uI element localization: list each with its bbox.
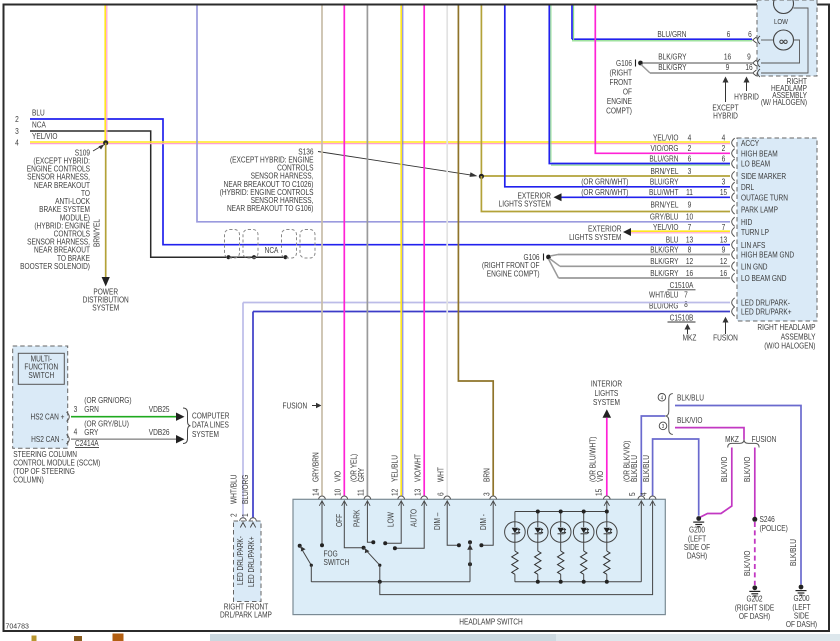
illumination LED 2 — [528, 522, 549, 543]
svg-text:FUSION: FUSION — [282, 401, 307, 411]
illumination LED 3 — [550, 522, 571, 543]
wire BLU/GRN to LO BEAM — [549, 6, 730, 164]
bottom UI strip — [210, 634, 556, 641]
svg-text:BLK/GRY: BLK/GRY — [650, 245, 678, 255]
svg-text:4: 4 — [74, 427, 78, 437]
pin LED DRL/PARK- row — [732, 298, 735, 307]
svg-text:(W/ HALOGEN): (W/ HALOGEN) — [761, 97, 807, 107]
svg-text:NEAR BREAKOUT TO G106): NEAR BREAKOUT TO G106) — [227, 203, 314, 213]
svg-text:LO BEAM GND: LO BEAM GND — [741, 274, 786, 284]
svg-text:BLK/GRY: BLK/GRY — [658, 52, 686, 62]
svg-text:5: 5 — [627, 492, 637, 496]
svg-text:BLU/WHT: BLU/WHT — [649, 187, 679, 197]
svg-text:LIGHTS SYSTEM: LIGHTS SYSTEM — [499, 199, 551, 209]
svg-text:BLK/BLU: BLK/BLU — [788, 539, 798, 566]
FUSION pointer — [725, 320, 727, 334]
multi-function switch box — [18, 353, 64, 384]
svg-text:4: 4 — [688, 133, 692, 143]
svg-text:6: 6 — [722, 154, 726, 164]
svg-text:BLK/GRY: BLK/GRY — [650, 268, 678, 278]
svg-text:4: 4 — [661, 395, 664, 402]
wire BLU/GRN vertical from top — [571, 6, 573, 40]
svg-text:3: 3 — [482, 492, 492, 496]
LED module top rail — [606, 502, 608, 512]
svg-text:LIN GND: LIN GND — [741, 262, 768, 272]
svg-text:BLU/GRN: BLU/GRN — [649, 154, 678, 164]
LED resistor 5 — [604, 551, 610, 574]
fog switch — [298, 544, 302, 548]
splice S246 (police) — [752, 517, 757, 522]
svg-text:HS2 CAN -: HS2 CAN - — [31, 434, 64, 444]
svg-text:BRN: BRN — [482, 468, 492, 482]
headlamp switch box — [293, 499, 665, 614]
svg-text:13: 13 — [686, 235, 693, 245]
svg-text:6: 6 — [748, 29, 752, 39]
svg-text:HID: HID — [741, 217, 752, 227]
HIGH bulb feed wire — [761, 8, 808, 73]
wire BRN to switch pin 3 — [458, 6, 493, 496]
svg-text:11: 11 — [356, 489, 366, 496]
wire BRN/YEL down to power distribution — [105, 143, 107, 277]
LED resistor 3 — [558, 551, 564, 574]
svg-text:C1510B: C1510B — [670, 313, 694, 323]
right headlamp assembly (w/o halogen) box — [737, 138, 817, 321]
switch pin bump at 652.6 — [649, 496, 656, 499]
pin SIDE MARKER row — [732, 171, 735, 180]
svg-text:AUTO: AUTO — [409, 509, 419, 527]
svg-text:VIO/WHT: VIO/WHT — [413, 454, 423, 482]
switch common rail — [311, 581, 470, 583]
svg-text:BOOSTER SOLENOID): BOOSTER SOLENOID) — [20, 261, 90, 271]
svg-text:SWITCH: SWITCH — [323, 557, 349, 567]
wire BLK/VIO dashed to G202 — [754, 522, 756, 585]
svg-text:PARK: PARK — [352, 510, 362, 527]
svg-text:COMPT): COMPT) — [606, 106, 632, 116]
svg-text:GRY: GRY — [357, 468, 367, 482]
svg-text:2: 2 — [722, 143, 726, 153]
svg-text:11: 11 — [686, 187, 693, 197]
switch pin bump at 322 — [319, 496, 326, 499]
svg-text:YEL/VIO: YEL/VIO — [653, 133, 679, 143]
pin 14 lead — [321, 502, 323, 545]
right front DRL/PARK lamp box — [234, 521, 262, 602]
pin LO BEAM row — [732, 159, 735, 168]
svg-text:(POLICE): (POLICE) — [760, 523, 788, 533]
switch pin bump at 424.2 — [421, 496, 428, 499]
svg-text:NCA: NCA — [265, 245, 279, 255]
ground G200 (left side of dash, MKZ) — [696, 516, 701, 521]
footnote 4 — [658, 394, 666, 402]
wire GRY to switch pin 11 — [366, 6, 368, 496]
svg-text:DRL: DRL — [741, 182, 754, 192]
svg-text:12: 12 — [720, 256, 727, 266]
switch pin bump at 493.2 — [490, 496, 497, 499]
svg-text:8: 8 — [684, 299, 688, 309]
svg-text:DRL/PARK LAMP: DRL/PARK LAMP — [220, 610, 272, 620]
pin LIN AFS row — [732, 240, 735, 249]
svg-text:OUTAGE TURN: OUTAGE TURN — [741, 193, 788, 203]
MKZ / FUSION split brace — [728, 440, 759, 448]
svg-text:9: 9 — [688, 200, 692, 210]
svg-text:4: 4 — [722, 133, 726, 143]
svg-text:3: 3 — [74, 404, 78, 414]
pin ACCY row — [732, 138, 735, 147]
switch pin bump at 606.8 — [604, 496, 611, 499]
wire BLU/GRY to DRL — [505, 6, 730, 187]
wire VIO/WHT to switch pin 13 — [423, 6, 425, 496]
svg-text:BLK/VIO: BLK/VIO — [742, 456, 752, 482]
inline connector (NCA) lobe 2b — [300, 230, 315, 259]
svg-text:12: 12 — [686, 256, 693, 266]
svg-text:(W/O HALOGEN): (W/O HALOGEN) — [764, 341, 815, 351]
svg-text:16: 16 — [724, 52, 731, 62]
svg-text:LIGHTS SYSTEM: LIGHTS SYSTEM — [569, 232, 621, 242]
pin HIGH BEAM GND row — [732, 250, 735, 259]
wire BLK/VIO FUSION branch to S246 — [754, 448, 756, 518]
svg-text:VDB26: VDB26 — [149, 427, 170, 437]
svg-text:HYBRID: HYBRID — [734, 92, 759, 102]
svg-text:LOW: LOW — [774, 19, 788, 27]
pin LIN GND row — [732, 262, 735, 271]
right headlamp assembly (w/ halogen) box — [757, 0, 817, 76]
illumination LED 5 — [597, 522, 618, 543]
wire VIO to switch pin 15 — [606, 418, 608, 496]
svg-text:BRN/YEL: BRN/YEL — [650, 200, 678, 210]
wire YEL/VIO vertical from top — [104, 6, 106, 143]
brace to computer data lines system — [183, 408, 191, 444]
svg-text:BLK/BLU: BLK/BLU — [629, 455, 639, 482]
wire BLU/ORG to LED DRL/PARK+ — [253, 311, 730, 313]
svg-text:SYSTEM: SYSTEM — [593, 397, 620, 407]
svg-text:BLU/ORG: BLU/ORG — [240, 474, 250, 504]
svg-text:ACCY: ACCY — [741, 138, 759, 148]
ground G200 (right, left side of dash) — [799, 585, 804, 590]
arrow to power distribution system — [102, 277, 110, 287]
pin HID row — [732, 217, 735, 226]
svg-text:FUSION: FUSION — [752, 434, 777, 444]
bulb HIGH (cut off at top) — [774, 0, 794, 14]
svg-text:C2414A: C2414A — [75, 438, 99, 448]
svg-text:BLK/VIO: BLK/VIO — [742, 550, 752, 576]
steering column control module box — [13, 346, 68, 448]
svg-text:HS2 CAN +: HS2 CAN + — [30, 412, 64, 422]
svg-text:OF: OF — [623, 87, 633, 97]
pin HIGH BEAM row — [732, 149, 735, 158]
ground G202 — [752, 585, 757, 590]
svg-text:WHT/BLU: WHT/BLU — [649, 290, 678, 300]
switch pin bump at 367.4 — [364, 496, 371, 499]
wire BLU/ORG down to DRL/PARK lamp — [252, 312, 254, 519]
switch pin bump at 641.3 — [638, 496, 645, 499]
svg-text:FUSION: FUSION — [713, 333, 738, 343]
svg-text:HIGH BEAM GND: HIGH BEAM GND — [741, 250, 794, 260]
pin LO BEAM GND row — [732, 273, 735, 282]
svg-text:SYSTEM: SYSTEM — [192, 429, 219, 439]
svg-text:2: 2 — [688, 143, 692, 153]
svg-text:LO BEAM: LO BEAM — [741, 159, 770, 169]
svg-text:LOW: LOW — [386, 512, 396, 527]
svg-text:OFF: OFF — [334, 513, 344, 527]
svg-text:MKZ: MKZ — [683, 333, 697, 343]
pin OUTAGE TURN row — [732, 193, 735, 202]
wire YEL/BLU to switch pin 12 — [400, 6, 402, 496]
svg-text:WHT: WHT — [436, 467, 446, 482]
svg-text:LED DRL/PARK+: LED DRL/PARK+ — [246, 536, 256, 587]
wire VIO/ORG to HIGH BEAM — [595, 6, 730, 154]
pin LED DRL/PARK+ row — [732, 307, 735, 316]
svg-text:BLU: BLU — [666, 235, 679, 245]
wire GRY/BRN to switch pin 14 — [321, 6, 323, 496]
svg-text:PARK LAMP: PARK LAMP — [741, 205, 778, 215]
svg-text:15: 15 — [594, 489, 604, 496]
wire WHT/BLU down to DRL/PARK lamp — [242, 303, 244, 519]
svg-text:TURN LP: TURN LP — [741, 228, 769, 238]
svg-text:16: 16 — [720, 268, 727, 278]
splice S109 junction — [103, 140, 108, 145]
svg-text:VIO: VIO — [595, 470, 605, 482]
svg-text:BLK/VIO: BLK/VIO — [719, 456, 729, 482]
wire WHT/BLU to LED DRL/PARK- — [243, 302, 730, 304]
wire BLU/WHT to OUTAGE TURN — [562, 196, 731, 198]
wire BLK/VIO MKZ branch to G200 — [700, 448, 732, 518]
HYBRID pointer — [746, 80, 748, 91]
svg-text:6: 6 — [727, 29, 731, 39]
svg-text:3: 3 — [722, 177, 726, 187]
svg-text:DIM –: DIM – — [432, 512, 442, 530]
svg-text:YEL/BLU: YEL/BLU — [390, 455, 400, 482]
wire BRN/YEL to SIDE MARKER — [480, 6, 482, 177]
svg-text:4: 4 — [639, 492, 649, 496]
wire GRY/BLU to HID — [197, 6, 730, 222]
svg-text:10: 10 — [333, 489, 343, 496]
svg-text:16: 16 — [686, 268, 693, 278]
svg-text:MKZ: MKZ — [725, 434, 739, 444]
svg-text:GRY: GRY — [84, 427, 98, 437]
svg-text:BLU/GRY: BLU/GRY — [650, 177, 679, 187]
inline connector (NCA) lobe 1a — [225, 230, 240, 259]
svg-text:DASH): DASH) — [687, 551, 707, 561]
wire BLK/GRY to LO BEAM GND — [549, 259, 559, 278]
switch pin bump at 344.3 — [341, 496, 348, 499]
svg-text:HYBRID: HYBRID — [713, 111, 738, 121]
splice junction on BRN/YEL — [479, 174, 484, 179]
MKZ pointer — [687, 327, 689, 334]
svg-text:15: 15 — [720, 187, 727, 197]
svg-text:DIM -: DIM - — [478, 513, 488, 530]
svg-text:BLU/GRN: BLU/GRN — [657, 29, 686, 39]
svg-text:14: 14 — [311, 489, 321, 496]
svg-text:2: 2 — [15, 114, 19, 124]
svg-text:3: 3 — [662, 424, 665, 431]
svg-text:BRN/YEL: BRN/YEL — [650, 166, 678, 176]
wire BLK/GRY to LIN GND — [550, 259, 561, 267]
wire BRN/YEL down to PARK LAMP — [481, 176, 730, 212]
splitting brace — [665, 394, 673, 435]
svg-text:LIN AFS: LIN AFS — [741, 240, 765, 250]
svg-text:VIO: VIO — [333, 470, 343, 482]
svg-text:HIGH BEAM: HIGH BEAM — [741, 149, 778, 159]
svg-text:4: 4 — [15, 138, 19, 148]
svg-text:SYSTEM: SYSTEM — [92, 303, 119, 313]
svg-text:7: 7 — [684, 290, 688, 300]
svg-text:12: 12 — [390, 489, 400, 496]
wire VIO to switch pin 10 — [343, 6, 345, 496]
svg-text:OF DASH): OF DASH) — [739, 611, 770, 621]
svg-text:VIO/ORG: VIO/ORG — [651, 143, 679, 153]
pin TURN LP row — [732, 227, 735, 236]
svg-text:ENGINE: ENGINE — [607, 96, 632, 106]
svg-text:BLK/VIO: BLK/VIO — [677, 415, 703, 425]
svg-text:2: 2 — [229, 513, 239, 517]
svg-text:NCA: NCA — [32, 120, 46, 130]
svg-text:G106: G106 — [616, 58, 632, 68]
svg-text:SWITCH: SWITCH — [28, 370, 54, 380]
EXCEPT HYBRID pointer — [725, 80, 727, 102]
svg-text:GRY/BLU: GRY/BLU — [650, 212, 679, 222]
svg-text:10: 10 — [686, 212, 693, 222]
svg-text:GRN: GRN — [84, 404, 99, 414]
svg-text:13: 13 — [720, 235, 727, 245]
pin DRL row — [732, 182, 735, 191]
wire YEL/VIO to TURN LP — [631, 230, 730, 232]
svg-text:BLU: BLU — [32, 108, 45, 118]
illumination LED 1 — [505, 522, 526, 543]
svg-text:BLK/BLU: BLK/BLU — [641, 455, 651, 482]
wire BLK/GRY to HIGH BEAM GND — [550, 255, 558, 257]
svg-text:VDB25: VDB25 — [149, 404, 170, 414]
LOW bulb return wire — [761, 40, 800, 63]
svg-text:LED DRL/PARK+: LED DRL/PARK+ — [741, 307, 792, 317]
svg-text:WHT/BLU: WHT/BLU — [229, 475, 239, 504]
pin PARK LAMP row — [732, 205, 735, 214]
LED resistor 4 — [581, 551, 587, 574]
svg-text:LED DRL/PARK-: LED DRL/PARK- — [235, 536, 245, 585]
illumination LED 4 — [573, 522, 594, 543]
svg-text:BLK/GRY: BLK/GRY — [658, 62, 686, 72]
S136 pointer arrow to BRN/YEL junction — [318, 152, 472, 176]
svg-text:FRONT: FRONT — [609, 77, 632, 87]
svg-text:GRY/BRN: GRY/BRN — [311, 452, 321, 482]
wire BLK/BLU from switch pin 4 — [653, 439, 699, 516]
svg-text:BLK/BLU: BLK/BLU — [677, 393, 704, 403]
LED resistor 2 — [535, 551, 541, 574]
LED module bottom rail — [515, 581, 641, 583]
svg-text:9: 9 — [747, 52, 751, 62]
svg-text:OF DASH): OF DASH) — [786, 619, 817, 629]
svg-text:(OR GRN/WHT): (OR GRN/WHT) — [581, 187, 628, 197]
svg-text:6: 6 — [688, 154, 692, 164]
footnote 3 — [659, 422, 667, 430]
svg-text:YEL/VIO: YEL/VIO — [32, 131, 58, 141]
svg-text:COLUMN): COLUMN) — [13, 475, 44, 485]
LED resistor 1 — [512, 551, 518, 574]
inline connector (NCA) lobe 1b — [243, 230, 258, 259]
svg-text:9: 9 — [726, 62, 730, 72]
svg-text:9: 9 — [722, 245, 726, 255]
svg-text:3: 3 — [688, 166, 692, 176]
switch pin bump at 401.2 — [398, 496, 405, 499]
svg-text:(RIGHT: (RIGHT — [609, 68, 632, 78]
svg-text:13: 13 — [413, 489, 423, 496]
wire WHT to switch pin 6 — [446, 6, 448, 496]
inline connector (NCA) lobe 2a — [282, 230, 297, 259]
svg-text:SIDE MARKER: SIDE MARKER — [741, 172, 786, 182]
svg-text:BRN/YEL: BRN/YEL — [92, 219, 102, 247]
svg-text:BLK/GRY: BLK/GRY — [650, 256, 678, 266]
switch pin bump at 447.2 — [444, 496, 451, 499]
svg-text:3: 3 — [15, 126, 19, 136]
dimmer rheostat blade — [468, 540, 472, 544]
svg-text:1: 1 — [240, 513, 250, 517]
park/low/auto selector — [362, 546, 366, 550]
svg-text:C1510A: C1510A — [670, 280, 694, 290]
svg-text:(OR GRN/WHT): (OR GRN/WHT) — [581, 177, 628, 187]
svg-text:ENGINE COMPT): ENGINE COMPT) — [487, 269, 540, 279]
svg-text:8: 8 — [688, 245, 692, 255]
svg-text:16: 16 — [745, 62, 752, 72]
svg-text:HEADLAMP SWITCH: HEADLAMP SWITCH — [459, 617, 523, 627]
wire BLK/BLU from switch pin 5 — [641, 416, 665, 496]
svg-text:704783: 704783 — [6, 624, 29, 631]
svg-text:6: 6 — [436, 492, 446, 496]
